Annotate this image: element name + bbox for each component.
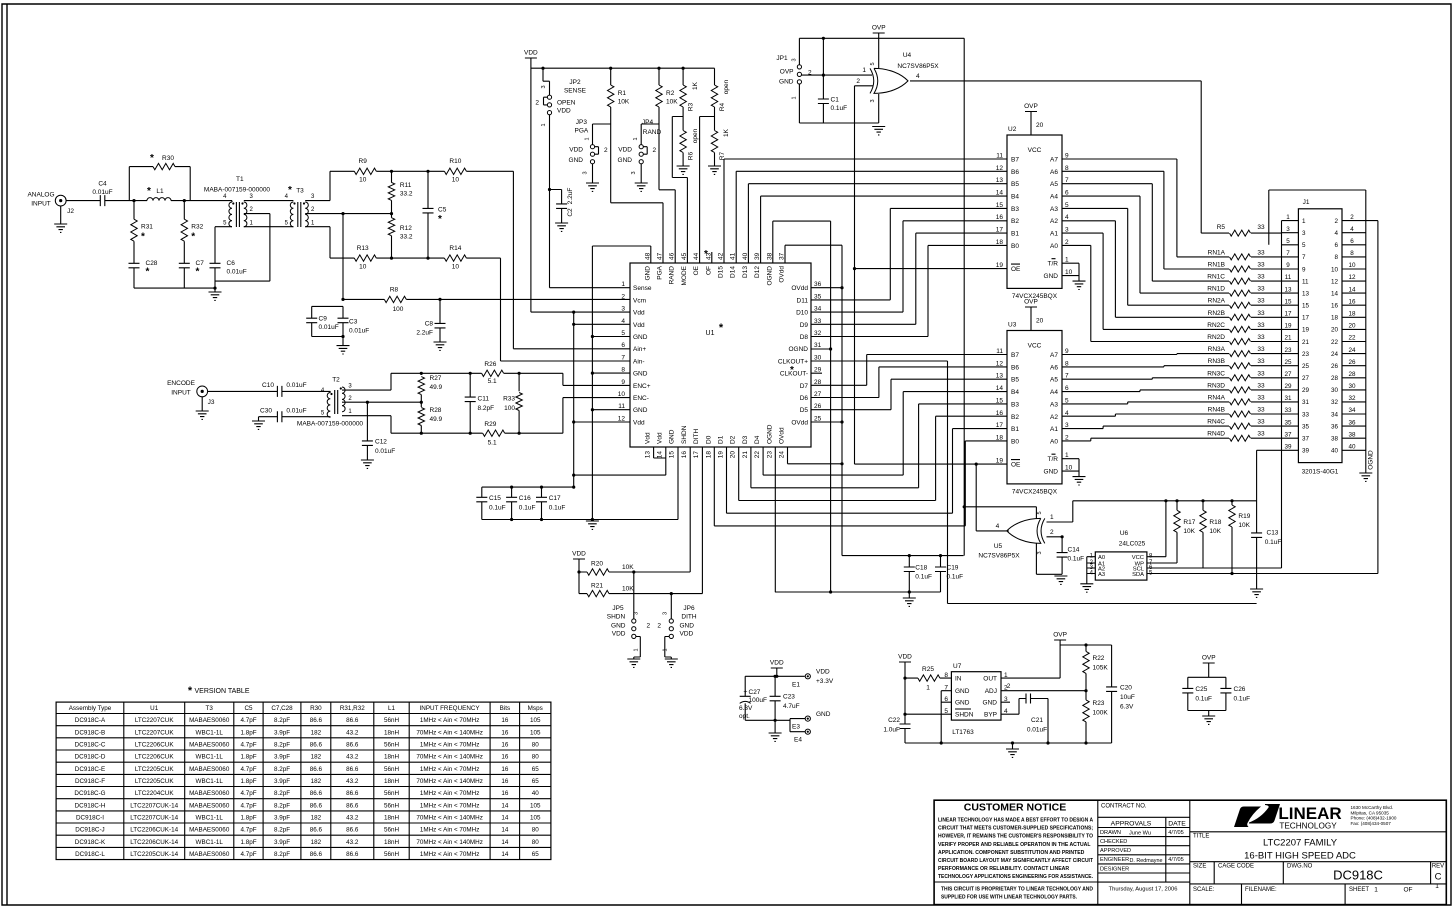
svg-text:Msps: Msps	[528, 705, 543, 712]
svg-text:39: 39	[1284, 444, 1292, 451]
svg-text:RN1D: RN1D	[1207, 286, 1225, 293]
svg-text:ADJ: ADJ	[985, 688, 997, 695]
svg-text:33: 33	[1257, 249, 1265, 256]
svg-text:16: 16	[501, 741, 509, 748]
svg-text:17: 17	[1302, 315, 1310, 322]
svg-text:32: 32	[1348, 395, 1356, 402]
svg-text:33: 33	[1257, 407, 1265, 414]
svg-text:A5: A5	[1050, 181, 1058, 188]
svg-text:10: 10	[452, 177, 460, 184]
svg-text:4/7/05: 4/7/05	[1168, 830, 1184, 836]
svg-text:13: 13	[644, 451, 651, 459]
svg-text:34: 34	[1348, 407, 1356, 414]
svg-text:LINEAR: LINEAR	[1278, 804, 1341, 823]
svg-text:C10: C10	[262, 382, 274, 389]
svg-text:Vdd: Vdd	[657, 432, 664, 444]
svg-text:APPROVED: APPROVED	[1100, 848, 1131, 854]
svg-text:1MHz < Ain < 70MHz: 1MHz < Ain < 70MHz	[420, 717, 480, 724]
svg-text:38: 38	[1348, 431, 1356, 438]
svg-text:19: 19	[996, 458, 1004, 465]
svg-text:16: 16	[996, 214, 1004, 221]
svg-text:56nH: 56nH	[384, 790, 400, 797]
svg-text:LTC2207CUK: LTC2207CUK	[135, 717, 175, 724]
svg-text:Phone: (408)432-1900: Phone: (408)432-1900	[1351, 816, 1397, 821]
svg-text:33: 33	[1284, 407, 1292, 414]
svg-text:33: 33	[1257, 370, 1265, 377]
svg-text:2: 2	[621, 293, 625, 300]
svg-text:R32: R32	[191, 224, 203, 231]
svg-text:2: 2	[1065, 239, 1069, 246]
svg-text:LT1763: LT1763	[952, 729, 974, 736]
svg-text:10: 10	[452, 264, 460, 271]
svg-text:86.6: 86.6	[346, 802, 359, 809]
svg-text:16: 16	[1331, 303, 1339, 310]
svg-text:56nH: 56nH	[384, 717, 400, 724]
svg-text:R25: R25	[922, 666, 934, 673]
svg-text:OVdd: OVdd	[791, 285, 808, 292]
svg-text:DITH: DITH	[681, 614, 696, 621]
svg-text:10K: 10K	[618, 99, 630, 106]
svg-text:2: 2	[657, 623, 661, 630]
svg-text:B4: B4	[1011, 389, 1019, 396]
svg-text:4: 4	[1334, 230, 1338, 237]
svg-text:182: 182	[311, 778, 322, 785]
svg-text:R10: R10	[449, 158, 461, 165]
svg-text:4.7pF: 4.7pF	[240, 802, 256, 809]
svg-text:DRAWN: DRAWN	[1100, 830, 1121, 836]
svg-text:25: 25	[814, 415, 822, 422]
svg-text:12: 12	[1348, 274, 1356, 281]
svg-text:1: 1	[634, 648, 640, 651]
svg-text:R1: R1	[618, 90, 627, 97]
svg-text:LTC2207CUK-14: LTC2207CUK-14	[130, 802, 178, 809]
svg-text:11: 11	[618, 403, 625, 410]
svg-text:T/R: T/R	[1048, 261, 1059, 268]
svg-text:24: 24	[1331, 351, 1339, 358]
svg-text:4/7/05: 4/7/05	[1168, 857, 1184, 863]
svg-text:DITH: DITH	[693, 429, 700, 444]
svg-text:11: 11	[996, 348, 1003, 355]
svg-text:GND: GND	[955, 688, 970, 695]
svg-text:B7: B7	[1011, 352, 1019, 359]
svg-text:B5: B5	[1011, 181, 1019, 188]
svg-text:A6: A6	[1050, 364, 1058, 371]
svg-text:31: 31	[1284, 395, 1292, 402]
svg-text:A1: A1	[1050, 426, 1058, 433]
svg-text:A7: A7	[1050, 157, 1058, 164]
svg-text:38: 38	[766, 252, 773, 260]
svg-text:2: 2	[1350, 214, 1354, 221]
svg-text:MABAES0060: MABAES0060	[189, 790, 230, 797]
svg-text:D1: D1	[718, 435, 725, 444]
svg-text:7: 7	[1065, 177, 1069, 184]
svg-text:Fax: (408)434-0507: Fax: (408)434-0507	[1351, 821, 1392, 826]
svg-text:37: 37	[779, 252, 786, 260]
svg-text:20: 20	[1331, 327, 1339, 334]
svg-text:L1: L1	[156, 188, 164, 195]
svg-text:Ain-: Ain-	[633, 358, 645, 365]
svg-text:B0: B0	[1011, 243, 1019, 250]
svg-text:31: 31	[1302, 399, 1310, 406]
svg-text:SDA: SDA	[1132, 572, 1144, 578]
svg-text:18nH: 18nH	[384, 778, 400, 785]
svg-text:R13: R13	[357, 245, 369, 252]
svg-text:17: 17	[996, 227, 1004, 234]
svg-text:SENSE: SENSE	[564, 88, 587, 95]
svg-text:B2: B2	[1011, 414, 1019, 421]
svg-text:GND: GND	[611, 623, 626, 630]
svg-text:47: 47	[657, 252, 664, 260]
svg-text:SUPPLIED FOR USE WITH LINEAR T: SUPPLIED FOR USE WITH LINEAR TECHNOLOGY …	[941, 895, 1077, 901]
svg-text:RN3B: RN3B	[1208, 358, 1225, 365]
svg-text:C26: C26	[1234, 686, 1246, 693]
svg-text:open: open	[692, 128, 699, 143]
svg-text:8.2pF: 8.2pF	[274, 717, 290, 724]
svg-text:0.01uF: 0.01uF	[349, 328, 369, 335]
svg-text:D10: D10	[796, 310, 808, 317]
svg-text:GND: GND	[633, 334, 648, 341]
svg-text:7: 7	[1302, 254, 1306, 261]
svg-text:open: open	[723, 79, 730, 94]
svg-text:70MHz < Ain < 140MHz: 70MHz < Ain < 140MHz	[416, 778, 483, 785]
svg-text:B0: B0	[1011, 438, 1019, 445]
svg-text:86.6: 86.6	[346, 790, 359, 797]
svg-text:T1: T1	[236, 176, 244, 183]
svg-text:4: 4	[1004, 708, 1008, 715]
svg-text:B4: B4	[1011, 194, 1019, 201]
svg-text:22: 22	[1331, 339, 1339, 346]
svg-text:SHEET: SHEET	[1349, 887, 1369, 893]
svg-text:R3: R3	[688, 102, 695, 111]
svg-text:VERSION TABLE: VERSION TABLE	[195, 688, 250, 695]
svg-text:T3: T3	[296, 188, 304, 195]
svg-text:C1: C1	[831, 97, 840, 104]
svg-text:10: 10	[359, 177, 367, 184]
svg-text:D6: D6	[800, 395, 809, 402]
svg-text:70MHz < Ain < 140MHz: 70MHz < Ain < 140MHz	[416, 754, 483, 761]
svg-text:JP3: JP3	[576, 119, 588, 126]
svg-text:16: 16	[501, 754, 509, 761]
svg-text:18: 18	[1348, 311, 1356, 318]
svg-text:27: 27	[1284, 371, 1292, 378]
svg-text:C22: C22	[888, 717, 900, 724]
svg-text:GND: GND	[816, 711, 831, 718]
svg-text:VDD: VDD	[898, 654, 912, 661]
svg-text:10K: 10K	[1183, 528, 1195, 535]
svg-text:R33: R33	[503, 396, 515, 403]
svg-text:33.2: 33.2	[400, 234, 413, 241]
svg-text:25: 25	[1302, 363, 1310, 370]
svg-text:18nH: 18nH	[384, 815, 400, 822]
svg-text:18: 18	[705, 451, 712, 459]
svg-text:3201S-40G1: 3201S-40G1	[1302, 469, 1339, 476]
svg-text:4: 4	[1065, 214, 1069, 221]
svg-text:33: 33	[1257, 334, 1265, 341]
svg-text:DC918C-J: DC918C-J	[75, 827, 104, 834]
svg-text:2: 2	[808, 70, 812, 77]
svg-text:1.8pF: 1.8pF	[240, 754, 256, 761]
svg-text:65: 65	[532, 766, 540, 773]
svg-text:49.9: 49.9	[430, 416, 443, 423]
svg-text:5: 5	[1286, 238, 1290, 245]
svg-text:DC918C: DC918C	[1333, 868, 1383, 883]
svg-text:GND: GND	[983, 700, 998, 707]
svg-text:RN3C: RN3C	[1207, 370, 1225, 377]
svg-text:C16: C16	[519, 495, 531, 502]
svg-text:CIRCUIT BOARD LAYOUT MAY SIGNI: CIRCUIT BOARD LAYOUT MAY SIGNIFICANTLY A…	[938, 858, 1093, 864]
svg-text:14: 14	[501, 815, 509, 822]
svg-text:105K: 105K	[1093, 665, 1109, 672]
svg-text:R31,R32: R31,R32	[340, 705, 365, 712]
svg-text:VCC: VCC	[1028, 147, 1042, 154]
svg-text:65: 65	[532, 778, 540, 785]
svg-text:LTC2207CUK: LTC2207CUK	[135, 729, 175, 736]
svg-text:OVdd: OVdd	[779, 266, 786, 283]
svg-text:J2: J2	[67, 208, 74, 215]
svg-text:VDD: VDD	[680, 631, 694, 638]
svg-text:0.1uF: 0.1uF	[1234, 696, 1251, 703]
svg-text:33: 33	[1302, 411, 1310, 418]
svg-text:2: 2	[1065, 434, 1069, 441]
svg-text:8.2pF: 8.2pF	[274, 741, 290, 748]
svg-text:DC918C-E: DC918C-E	[75, 766, 105, 773]
svg-text:0.1uF: 0.1uF	[489, 505, 506, 512]
svg-text:B3: B3	[1011, 206, 1019, 213]
svg-text:10: 10	[618, 391, 626, 398]
svg-text:REV: REV	[1432, 864, 1444, 870]
svg-text:*: *	[191, 232, 195, 243]
svg-text:THIS CIRCUIT IS PROPRIETARY TO: THIS CIRCUIT IS PROPRIETARY TO LINEAR TE…	[941, 887, 1093, 893]
svg-text:33: 33	[1257, 346, 1265, 353]
svg-text:INPUT: INPUT	[171, 390, 191, 397]
svg-text:33: 33	[1257, 286, 1265, 293]
svg-text:R2: R2	[666, 90, 675, 97]
svg-text:TITLE: TITLE	[1193, 834, 1209, 840]
svg-text:4.7pF: 4.7pF	[240, 790, 256, 797]
svg-text:65: 65	[532, 851, 540, 858]
svg-text:86.6: 86.6	[310, 741, 323, 748]
svg-text:OVP: OVP	[1024, 299, 1038, 306]
svg-text:29: 29	[814, 367, 822, 374]
svg-text:WBC1-1L: WBC1-1L	[196, 839, 224, 846]
svg-text:3: 3	[1037, 551, 1043, 554]
svg-text:3: 3	[870, 99, 876, 102]
svg-text:U5: U5	[994, 543, 1003, 550]
svg-text:OE: OE	[693, 265, 700, 275]
svg-text:43.2: 43.2	[346, 754, 359, 761]
svg-text:Assembly Type: Assembly Type	[69, 705, 112, 712]
svg-text:A3: A3	[1050, 401, 1058, 408]
svg-text:1: 1	[621, 281, 625, 288]
svg-text:15: 15	[1302, 303, 1310, 310]
svg-text:17: 17	[693, 451, 700, 459]
svg-text:0.01uF: 0.01uF	[286, 408, 306, 415]
svg-text:86.6: 86.6	[346, 741, 359, 748]
svg-text:0.1uF: 0.1uF	[549, 505, 566, 512]
svg-text:21: 21	[1302, 339, 1310, 346]
svg-text:16: 16	[501, 766, 509, 773]
svg-text:16: 16	[1348, 298, 1356, 305]
svg-text:U3: U3	[1008, 322, 1017, 329]
svg-text:GND: GND	[633, 407, 648, 414]
svg-text:86.6: 86.6	[346, 851, 359, 858]
svg-text:RN1B: RN1B	[1208, 262, 1225, 269]
svg-text:Vdd: Vdd	[633, 419, 645, 426]
svg-text:70MHz < Ain < 140MHz: 70MHz < Ain < 140MHz	[416, 729, 483, 736]
svg-text:86.6: 86.6	[346, 766, 359, 773]
svg-text:9: 9	[1302, 266, 1306, 273]
svg-text:0.1uF: 0.1uF	[1068, 556, 1085, 563]
svg-text:0.1uF: 0.1uF	[519, 505, 536, 512]
svg-text:U1: U1	[706, 330, 715, 337]
svg-text:1: 1	[1374, 886, 1378, 893]
svg-text:T2: T2	[332, 377, 340, 384]
svg-text:31: 31	[814, 342, 822, 349]
svg-text:5: 5	[1302, 242, 1306, 249]
svg-text:MABAES0060: MABAES0060	[189, 766, 230, 773]
svg-text:8: 8	[1350, 250, 1354, 257]
svg-text:R14: R14	[449, 245, 461, 252]
svg-text:36: 36	[1331, 423, 1339, 430]
svg-text:22: 22	[754, 451, 761, 459]
svg-text:8.2pF: 8.2pF	[274, 790, 290, 797]
svg-text:182: 182	[311, 754, 322, 761]
svg-text:35: 35	[814, 293, 822, 300]
svg-text:10uF: 10uF	[1120, 694, 1135, 701]
svg-text:ENGINEER: ENGINEER	[1100, 857, 1129, 863]
svg-text:GND: GND	[633, 371, 648, 378]
svg-text:12: 12	[618, 415, 626, 422]
svg-text:32: 32	[1331, 399, 1339, 406]
svg-text:43.2: 43.2	[346, 815, 359, 822]
svg-text:40: 40	[532, 790, 540, 797]
svg-text:R9: R9	[359, 158, 368, 165]
svg-text:RN3D: RN3D	[1207, 382, 1225, 389]
svg-text:42: 42	[718, 252, 725, 260]
svg-text:C14: C14	[1068, 547, 1080, 554]
svg-text:7: 7	[1286, 250, 1290, 257]
svg-text:RN2A: RN2A	[1208, 298, 1226, 305]
svg-text:C23: C23	[783, 694, 795, 701]
svg-text:70MHz < Ain < 140MHz: 70MHz < Ain < 140MHz	[416, 815, 483, 822]
svg-text:2: 2	[653, 147, 657, 154]
svg-text:U2: U2	[1008, 126, 1017, 133]
svg-text:C11: C11	[478, 396, 490, 403]
svg-text:Vcm: Vcm	[633, 297, 646, 304]
svg-text:35: 35	[1284, 419, 1292, 426]
svg-text:11: 11	[1285, 274, 1292, 281]
svg-text:GND: GND	[779, 79, 794, 86]
svg-text:Vdd: Vdd	[633, 322, 645, 329]
svg-text:19: 19	[718, 451, 725, 459]
svg-text:86.6: 86.6	[310, 851, 323, 858]
svg-text:Bits: Bits	[500, 705, 511, 712]
svg-text:4: 4	[1350, 226, 1354, 233]
svg-text:4.7pF: 4.7pF	[240, 741, 256, 748]
svg-text:5: 5	[1037, 511, 1043, 514]
svg-text:12: 12	[996, 360, 1004, 367]
svg-text:3: 3	[1286, 226, 1290, 233]
svg-text:0.1uF: 0.1uF	[831, 105, 848, 112]
svg-text:C19: C19	[947, 565, 959, 572]
svg-text:RN1C: RN1C	[1207, 274, 1225, 281]
svg-text:2: 2	[856, 78, 860, 85]
svg-text:Vdd: Vdd	[633, 310, 645, 317]
svg-text:GND: GND	[644, 266, 651, 281]
svg-text:18: 18	[996, 434, 1004, 441]
svg-text:15: 15	[996, 202, 1004, 209]
svg-text:5: 5	[621, 330, 625, 337]
svg-text:16-BIT HIGH SPEED ADC: 16-BIT HIGH SPEED ADC	[1244, 850, 1356, 861]
svg-text:8: 8	[1334, 254, 1338, 261]
svg-text:1MHz < Ain < 70MHz: 1MHz < Ain < 70MHz	[420, 851, 480, 858]
svg-text:8.2pF: 8.2pF	[478, 405, 495, 412]
svg-text:2: 2	[1007, 683, 1011, 690]
svg-text:56nH: 56nH	[384, 851, 400, 858]
svg-text:D3: D3	[742, 435, 749, 444]
svg-text:14: 14	[996, 190, 1004, 197]
svg-text:OGND: OGND	[789, 346, 809, 353]
svg-text:17: 17	[1284, 311, 1292, 318]
svg-text:CIRCUIT THAT MEETS CUSTOMER-SU: CIRCUIT THAT MEETS CUSTOMER-SUPPLIED SPE…	[938, 826, 1093, 832]
svg-text:OVP: OVP	[1024, 103, 1038, 110]
svg-text:80: 80	[532, 741, 540, 748]
svg-text:36: 36	[1348, 419, 1356, 426]
svg-text:JP1: JP1	[776, 55, 788, 62]
svg-text:Milpitas, CA 95035: Milpitas, CA 95035	[1351, 810, 1390, 815]
svg-text:R29: R29	[484, 421, 496, 428]
svg-text:6: 6	[621, 342, 625, 349]
svg-text:MABAES0060: MABAES0060	[189, 851, 230, 858]
svg-text:12: 12	[996, 165, 1004, 172]
svg-text:86.6: 86.6	[346, 717, 359, 724]
svg-text:JP5: JP5	[612, 605, 624, 612]
svg-text:opt.: opt.	[739, 713, 750, 720]
svg-text:2: 2	[1050, 529, 1054, 536]
svg-text:R22: R22	[1093, 655, 1105, 662]
svg-text:C17: C17	[549, 495, 561, 502]
svg-text:39: 39	[754, 252, 761, 260]
svg-text:23: 23	[766, 451, 773, 459]
svg-text:40: 40	[742, 252, 749, 260]
svg-text:B3: B3	[1011, 401, 1019, 408]
svg-text:23: 23	[1302, 351, 1310, 358]
svg-text:JP2: JP2	[569, 79, 581, 86]
svg-text:C8: C8	[425, 321, 434, 328]
svg-text:105: 105	[530, 815, 541, 822]
svg-text:L1: L1	[388, 705, 396, 712]
svg-text:R19: R19	[1238, 513, 1250, 520]
svg-text:1: 1	[926, 685, 930, 692]
svg-text:CAGE CODE: CAGE CODE	[1218, 864, 1254, 870]
svg-text:DC918C-D: DC918C-D	[75, 754, 106, 761]
svg-text:DC918C-K: DC918C-K	[75, 839, 106, 846]
svg-text:D15: D15	[718, 266, 725, 278]
svg-text:1: 1	[792, 96, 798, 99]
svg-text:1.8pF: 1.8pF	[240, 778, 256, 785]
svg-text:R30: R30	[162, 155, 174, 162]
svg-text:18nH: 18nH	[384, 754, 400, 761]
svg-text:8: 8	[1065, 360, 1069, 367]
svg-text:0.01uF: 0.01uF	[375, 448, 395, 455]
svg-text:IN: IN	[955, 676, 962, 683]
svg-text:J1: J1	[1303, 199, 1310, 206]
svg-text:OUT: OUT	[983, 676, 997, 683]
svg-text:25: 25	[1284, 359, 1292, 366]
svg-text:LTC2207 FAMILY: LTC2207 FAMILY	[1263, 837, 1338, 848]
svg-text:3: 3	[631, 171, 637, 174]
svg-text:20: 20	[1348, 323, 1356, 330]
